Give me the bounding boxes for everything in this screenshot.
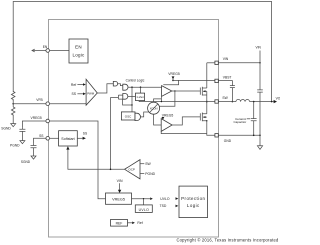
wire VREG5 internal down to regulator bbox=[50, 121, 106, 199]
svg-text:SW: SW bbox=[145, 162, 151, 166]
svg-text:VREG5: VREG5 bbox=[162, 113, 174, 117]
svg-text:UVLO: UVLO bbox=[160, 197, 170, 201]
capacitor C-OUT ceramic bbox=[251, 102, 257, 136]
node junction bbox=[206, 101, 208, 103]
wire VBST rail bbox=[173, 79, 215, 81]
wire Q1 source to SW bbox=[206, 91, 208, 101]
gate U1 bbox=[113, 81, 117, 86]
resistor R1 (feedback top) bbox=[11, 92, 15, 102]
node junction bbox=[131, 104, 132, 105]
svg-text:OSC: OSC bbox=[125, 114, 132, 118]
svg-text:Protection: Protection bbox=[181, 196, 205, 201]
wire EN input with off-page arrow bbox=[33, 50, 47, 52]
wire inductor to VO bbox=[250, 101, 274, 103]
wire EN pin to EN Logic bbox=[50, 50, 69, 52]
pin GND bbox=[215, 134, 218, 137]
svg-text:VREG5: VREG5 bbox=[168, 72, 180, 76]
wire junction to OSC bbox=[131, 87, 133, 112]
wire VFB to PWM comparator bbox=[13, 103, 46, 105]
wire OCP input PGND bbox=[140, 173, 144, 175]
capacitor C-VREG5 bbox=[19, 128, 25, 141]
driver HS bbox=[162, 86, 172, 97]
wire junction to one-shot bbox=[140, 87, 142, 93]
wire XCON input from HS gate bbox=[159, 91, 175, 106]
wire Q1 drain to VIN bbox=[206, 63, 208, 88]
node junction bbox=[259, 135, 261, 137]
wire VO output arrow bbox=[274, 100, 277, 103]
capacitor C-SS bbox=[31, 144, 37, 156]
svg-text:Capacitor: Capacitor bbox=[233, 120, 246, 124]
svg-text:SGND: SGND bbox=[21, 160, 31, 164]
node junction bbox=[174, 90, 175, 91]
wire VREG5 external to cap bbox=[22, 121, 46, 128]
svg-text:VFB: VFB bbox=[36, 98, 43, 102]
wire OCP output to softstart bbox=[68, 149, 125, 169]
wire R1 to R2 bbox=[12, 101, 14, 108]
wire SS pin to Softstart bbox=[50, 137, 59, 139]
wire SW external to inductor bbox=[218, 101, 236, 103]
wire one-shot to SW bbox=[138, 101, 140, 102]
wire VIN branch bbox=[259, 51, 261, 90]
svg-text:Logic: Logic bbox=[187, 203, 200, 208]
wire OCP input SW bbox=[140, 163, 144, 165]
wire Softstart SS output arrow bbox=[77, 137, 82, 139]
wire LS driver return to GND bbox=[161, 131, 207, 133]
svg-text:SGND: SGND bbox=[1, 127, 11, 131]
wire VREG5 arrow into VBST rail bbox=[172, 76, 175, 79]
svg-text:1-shot: 1-shot bbox=[136, 95, 143, 99]
wire VIN pin internal bbox=[207, 62, 215, 64]
wire VIN pin external bbox=[218, 62, 260, 64]
wire SW node internal bbox=[139, 101, 215, 103]
wire down to UVLO block bbox=[143, 199, 145, 205]
svg-text:VIN: VIN bbox=[256, 46, 262, 50]
svg-text:VO: VO bbox=[276, 96, 280, 100]
node junction bbox=[131, 86, 133, 88]
capacitor C-BST bbox=[230, 86, 235, 102]
wire REF output arrow bbox=[128, 222, 133, 224]
pin EN bbox=[46, 49, 50, 53]
svg-text:EN: EN bbox=[75, 44, 82, 49]
wire OCP feedback up to U4 bbox=[111, 98, 119, 170]
svg-text:Ref: Ref bbox=[71, 83, 76, 87]
svg-text:VIN: VIN bbox=[117, 179, 123, 183]
gate U5 bbox=[135, 113, 141, 120]
node junction VO rail bbox=[271, 101, 273, 103]
wire Q2 drain to SW bbox=[206, 102, 208, 114]
block EN Logic bbox=[69, 39, 88, 63]
svg-text:PGND: PGND bbox=[145, 172, 155, 176]
wire VREG5 out to UVLO arrow bbox=[132, 198, 151, 200]
XCON slash bbox=[150, 104, 158, 113]
wire Q2 source to GND bbox=[207, 121, 215, 136]
block REF bbox=[111, 220, 128, 227]
svg-text:PGND: PGND bbox=[10, 143, 20, 147]
block VREG5 regulator bbox=[106, 193, 132, 204]
node junction bbox=[140, 86, 142, 88]
node junction bbox=[253, 135, 255, 137]
node junction bbox=[259, 62, 261, 64]
node junction bbox=[232, 101, 234, 103]
driver LS bbox=[161, 119, 172, 132]
wire R2 to SGND bbox=[12, 116, 14, 124]
svg-text:UVLO: UVLO bbox=[139, 208, 149, 212]
IC boundary frame bbox=[49, 20, 219, 238]
wire U5 output to XCON bbox=[140, 112, 148, 117]
block Protection Logic bbox=[179, 186, 208, 218]
node junction bbox=[161, 101, 162, 102]
svg-text:TSD: TSD bbox=[160, 204, 167, 208]
node junction bbox=[143, 198, 144, 199]
wire driver supply stub bbox=[163, 80, 178, 84]
wire XCON top to SW sense bbox=[154, 99, 162, 102]
pin SW bbox=[215, 100, 218, 103]
svg-text:VREG5: VREG5 bbox=[31, 116, 42, 120]
ground SGND (divider) bbox=[11, 124, 16, 127]
svg-text:Copyright © 2016, Texas Instru: Copyright © 2016, Texas Instruments Inco… bbox=[176, 238, 279, 243]
node junction bbox=[253, 101, 255, 103]
transistor Q2 (low side) bbox=[200, 113, 207, 122]
block OSC bbox=[121, 112, 135, 120]
inductor L1 bbox=[236, 99, 250, 101]
wire XCON bottom to LS driver bbox=[154, 114, 162, 125]
svg-text:Control Logic: Control Logic bbox=[126, 78, 145, 82]
block Softstart bbox=[59, 131, 78, 146]
wire VO feedback top rail bbox=[13, 2, 271, 102]
ground PGND bbox=[20, 141, 25, 144]
wire U4 output to one-shot bbox=[128, 95, 136, 97]
wire VIN arrow into VREG5 block bbox=[119, 183, 121, 190]
pin VFB bbox=[46, 102, 50, 106]
pin VBST bbox=[215, 79, 218, 82]
node junction bbox=[110, 169, 112, 171]
gate U4 bbox=[123, 94, 128, 100]
comparator PWM bbox=[86, 79, 97, 105]
node junction bbox=[172, 80, 174, 82]
comparator OCP bbox=[125, 160, 140, 179]
svg-text:Ref: Ref bbox=[137, 221, 142, 225]
wire U4 inputs bracket bbox=[118, 95, 122, 99]
svg-text:Logic: Logic bbox=[72, 52, 85, 57]
node VFB tap junction bbox=[12, 103, 14, 105]
transistor Q1 (high side) bbox=[200, 87, 207, 96]
svg-text:OCP: OCP bbox=[128, 168, 135, 172]
ground SGND (SS cap) bbox=[31, 156, 36, 159]
svg-text:VREG5: VREG5 bbox=[112, 198, 125, 202]
block UVLO bbox=[135, 205, 152, 213]
pin VIN bbox=[215, 61, 218, 64]
wire HS driver output to Q1 gate bbox=[172, 90, 201, 92]
wire HS driver return to SW bbox=[160, 96, 162, 101]
wire GND external bbox=[218, 134, 260, 136]
resistor R2 (feedback bottom) bbox=[11, 107, 15, 116]
wire VBST external to bootstrap cap bbox=[218, 81, 232, 86]
capacitor C-IN bbox=[257, 90, 263, 135]
svg-text:SS: SS bbox=[71, 92, 76, 96]
ground power bbox=[257, 135, 262, 149]
svg-text:VIN: VIN bbox=[223, 57, 229, 61]
wire U1 to U2 bbox=[118, 84, 123, 86]
wire SS external to cap bbox=[34, 138, 47, 144]
wire U4 bottom to OSC bbox=[123, 100, 132, 106]
node junction bbox=[206, 120, 207, 121]
svg-text:PWM: PWM bbox=[87, 91, 95, 95]
circle XCON bbox=[148, 102, 160, 114]
gate U2 bbox=[123, 84, 128, 90]
svg-text:GND: GND bbox=[224, 139, 232, 143]
svg-text:SW: SW bbox=[222, 96, 228, 100]
wire U2 output to HS driver bbox=[128, 86, 161, 88]
wire LS driver output to Q2 gate bbox=[172, 117, 200, 125]
svg-text:REF: REF bbox=[116, 222, 123, 226]
wire PWM output to gate U1 bbox=[97, 84, 113, 93]
block one-shot bbox=[136, 93, 145, 101]
wire softstart bottom arrow bbox=[66, 146, 69, 149]
svg-text:XCON: XCON bbox=[150, 106, 158, 110]
svg-text:VBST: VBST bbox=[223, 75, 232, 79]
svg-text:Softstart: Softstart bbox=[61, 137, 74, 141]
